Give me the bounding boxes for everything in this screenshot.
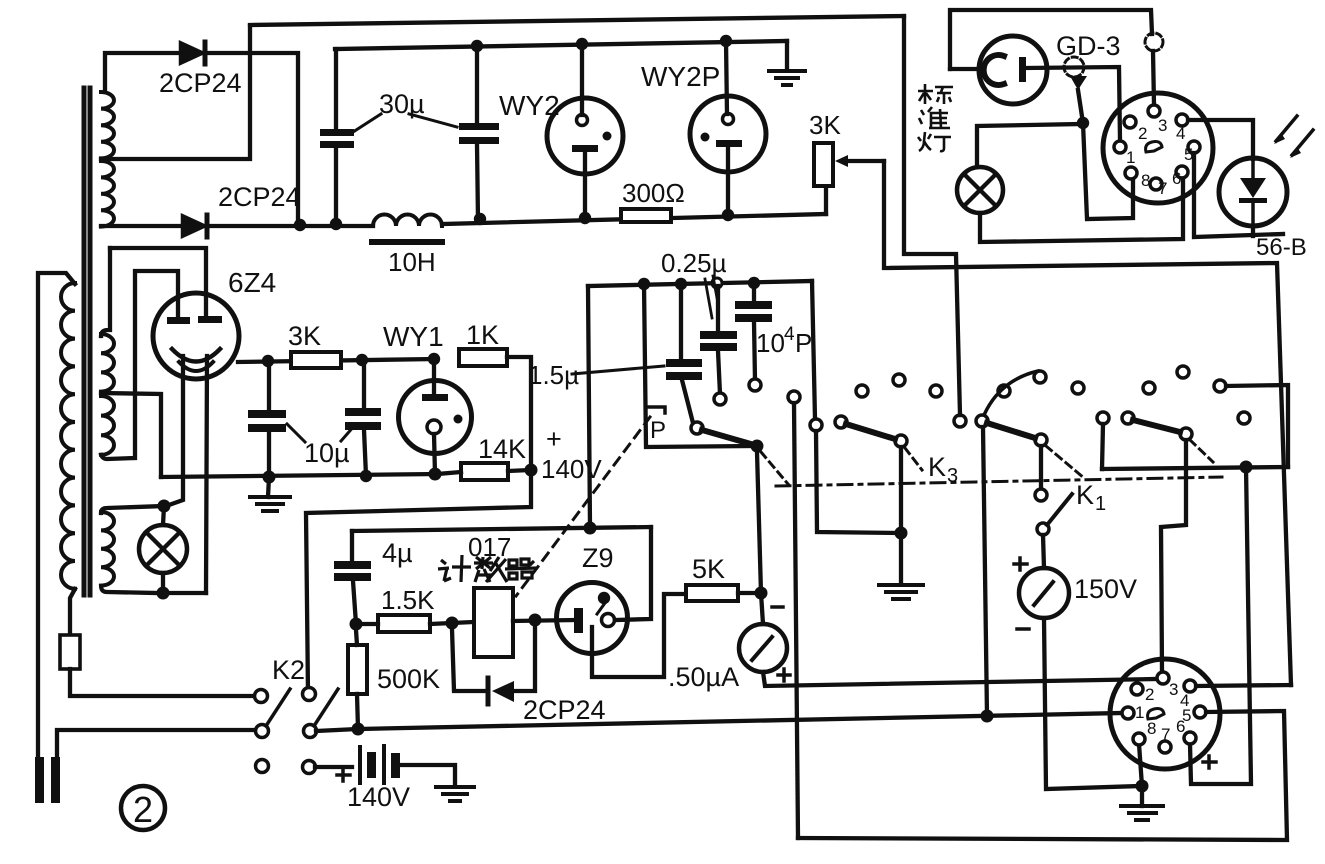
P terminal tab <box>646 407 665 413</box>
dashed socket circle top <box>1145 33 1163 51</box>
wire plug pin2 to K2 <box>57 730 255 759</box>
svg-text:140V: 140V <box>541 454 602 484</box>
svg-text:2CP24: 2CP24 <box>159 68 242 98</box>
svg-text:4: 4 <box>784 324 795 345</box>
battery plates <box>358 744 400 785</box>
node junction dot <box>294 219 306 231</box>
wire 5K right <box>738 591 759 595</box>
wire top supply rail <box>250 16 904 25</box>
wire GD-3 anode to pin1 <box>1026 67 1120 141</box>
wire 1K right <box>306 357 531 694</box>
capacitor C1 30u <box>320 129 354 148</box>
GD-3 anode bar <box>1019 57 1026 82</box>
wire top rail drop to stud S2-5 <box>904 16 960 415</box>
tube 6Z4 <box>153 293 239 379</box>
wire T1 center tap riser <box>101 26 250 159</box>
wire S4 wiper to socket2 top <box>1161 440 1186 672</box>
wire battery to ground <box>400 765 455 786</box>
K3 S1 wiper <box>751 440 764 453</box>
switch K3 section S3 studs <box>976 371 1109 427</box>
6Z4 right plate <box>198 316 222 323</box>
svg-text:2CP24: 2CP24 <box>523 695 606 725</box>
svg-text:30µ: 30µ <box>379 89 425 119</box>
wire Z9 cathode to 5K <box>592 594 686 677</box>
node junction dot <box>471 40 483 52</box>
svg-text:150V: 150V <box>1074 574 1137 604</box>
capacitor C6 10^4P stem <box>752 283 756 301</box>
tube WY2 top pin <box>577 115 588 126</box>
resistor R2 3K (pot) <box>814 143 833 186</box>
node junction dot <box>895 527 908 540</box>
wire socket2 pin5 to bottom border <box>798 711 1287 840</box>
wire dot to pin6 riser <box>1190 467 1251 784</box>
capacitor C2 30u <box>459 123 499 144</box>
winding W2c filament <box>101 512 114 586</box>
pointer line 30u right <box>409 114 457 127</box>
wire 500K top <box>356 630 357 645</box>
socket XS2 keyway <box>1148 709 1164 719</box>
svg-text:2: 2 <box>1145 685 1154 704</box>
svg-text:1K: 1K <box>466 320 499 350</box>
capacitor C8 4u <box>334 561 371 581</box>
node junction dot <box>428 353 440 365</box>
figure number 2 <box>121 786 165 830</box>
dashed lamp circle on anode wire <box>1064 57 1084 77</box>
tube WY2 stem <box>580 44 584 115</box>
wire rail to 3K <box>824 186 828 214</box>
phototube GD-3 <box>979 36 1047 104</box>
svg-text:5K: 5K <box>692 554 725 584</box>
switch K3 section S4 studs <box>1122 366 1250 424</box>
wire primary bottom to fuse <box>70 589 75 635</box>
wire stud S3-5 drop <box>1102 424 1103 469</box>
capacitor C3 10u stem <box>267 361 271 410</box>
wiper arrow of 3K <box>849 159 884 163</box>
pointer 1.5u <box>572 366 664 374</box>
resistor R6 1.5K <box>378 615 430 632</box>
wire S3 wiper to K1 <box>1039 446 1043 489</box>
svg-text:K: K <box>1076 480 1094 510</box>
svg-text:3: 3 <box>1169 680 1178 699</box>
wire WY2P bottom <box>726 147 730 215</box>
svg-text:4: 4 <box>1176 124 1185 143</box>
inductor L1 10H <box>373 215 442 227</box>
tube socket XS1 <box>1103 93 1213 203</box>
node junction dot <box>262 355 274 367</box>
wire node to lamp2 <box>163 506 164 525</box>
tube WY2P <box>690 96 766 172</box>
svg-text:7: 7 <box>1161 725 1170 744</box>
wire socket2 pin8 drop <box>1139 744 1142 786</box>
label plus (pin6) <box>1203 756 1216 768</box>
Z9 left electrode bar <box>574 608 583 633</box>
6Z4 filament leg B <box>206 356 207 593</box>
svg-text:0.25µ: 0.25µ <box>661 248 727 278</box>
tube WY1 cathode pin <box>427 420 441 434</box>
6Z4 filament leg A <box>166 356 183 506</box>
svg-text:6: 6 <box>1172 169 1181 188</box>
wire 500K bottom <box>357 694 358 729</box>
node junction dot <box>356 354 368 366</box>
resistor R4 1K <box>459 349 507 366</box>
diode D3 2CP24 bypass <box>452 629 486 691</box>
svg-text:Z9: Z9 <box>582 543 614 573</box>
wire C5 bottom to stud <box>718 351 720 394</box>
wire filtered rail <box>442 214 826 224</box>
wire K1 to voltmeter <box>1043 535 1044 568</box>
node junction dot <box>158 500 171 513</box>
capacitor C8 4u stem <box>350 531 354 561</box>
socket XS2 pin numbers <box>1135 680 1191 744</box>
wire rectified rail <box>207 224 373 228</box>
svg-text:140V: 140V <box>347 782 410 812</box>
svg-text:P: P <box>650 417 666 444</box>
capacitor C4 10u <box>345 408 381 430</box>
wire counter to Z9 <box>513 620 574 621</box>
pointer 10u left <box>287 424 305 442</box>
node junction dot <box>1136 780 1149 793</box>
fuse FU <box>60 635 80 669</box>
resistor R7 5K <box>686 585 738 601</box>
pointer 10u right <box>341 425 355 441</box>
node junction dot <box>675 278 687 290</box>
svg-text:2: 2 <box>133 789 153 830</box>
wire C1 bottom <box>334 148 338 222</box>
svg-text:GD-3: GD-3 <box>1056 31 1121 61</box>
wire stage bottom rail <box>161 474 437 477</box>
wire K2 to 500K rail <box>316 729 358 731</box>
linkage dash-dot line <box>776 477 1222 486</box>
wire upper rail 2 <box>335 41 787 49</box>
6Z4 left plate <box>167 317 190 324</box>
wire battery rail to socket2 pin1 <box>358 713 1122 729</box>
wire 56-B cathode stem <box>1251 226 1255 236</box>
wire C3 bottom <box>267 432 271 477</box>
svg-text:500K: 500K <box>377 664 440 694</box>
wire W2c top <box>101 506 164 513</box>
svg-text:300Ω: 300Ω <box>622 178 685 208</box>
tube WY1 <box>399 381 472 454</box>
wire C6 bottom to stud <box>754 322 755 380</box>
wire fuse to K2 <box>70 669 254 696</box>
pointer line 30u left <box>353 114 381 132</box>
wire stud S3-1 drop <box>983 427 987 716</box>
node junction dot <box>529 614 542 627</box>
label ji-shu-qi (counter) <box>438 555 537 582</box>
capacitor C3 10u <box>248 410 286 432</box>
resistor R3 3K <box>291 352 341 368</box>
svg-text:+: + <box>546 424 562 454</box>
capacitor C4 10u stem <box>362 360 366 408</box>
wire GD-3 left lead <box>950 67 979 71</box>
svg-text:8: 8 <box>1147 719 1156 738</box>
inductor L1 core bar <box>369 239 445 245</box>
capacitor C1 30u stem <box>334 49 338 129</box>
wire uA meter bottom to socket2 pin-top <box>763 672 1156 686</box>
wire P riser <box>644 284 751 447</box>
K3 S2 wiper <box>895 435 907 447</box>
wire W1b bottom to D2 <box>101 224 182 228</box>
tube WY2 cathode bar <box>572 145 598 152</box>
K3 S1 linkage dashes <box>761 452 788 484</box>
wire Z9 box top <box>352 527 651 531</box>
wire 1.5K right to counter <box>430 622 474 624</box>
node junction dot <box>748 277 760 289</box>
svg-text:1: 1 <box>1095 493 1106 515</box>
svg-text:2: 2 <box>1138 124 1147 143</box>
ground symbol (K3) <box>879 585 923 599</box>
tube WY2P stem <box>726 41 727 114</box>
svg-text:3K: 3K <box>809 110 841 140</box>
svg-text:10: 10 <box>756 328 785 358</box>
Z9 stroke <box>597 603 605 614</box>
capacitor C5 0.25u stem <box>716 286 720 332</box>
node junction dot <box>1077 117 1089 129</box>
svg-text:1.5K: 1.5K <box>381 585 435 615</box>
node junction dot <box>330 218 342 230</box>
node junction dot <box>579 212 591 224</box>
switch K1 <box>1035 489 1047 501</box>
wire cathode output rail <box>238 359 434 362</box>
svg-text:4µ: 4µ <box>382 538 413 568</box>
node junction dot <box>263 471 276 484</box>
meter uA50 <box>761 593 763 624</box>
node ring junction <box>712 278 722 288</box>
diode D1 2CP24 <box>180 42 204 64</box>
wire stud S4-4 strap <box>1226 385 1288 467</box>
K3 S4 wiper <box>1180 428 1192 440</box>
wire plug to primary top <box>38 273 75 759</box>
svg-text:WY2P: WY2P <box>641 61 720 92</box>
wire 1.5K left <box>356 622 378 626</box>
node junction dot <box>576 38 588 50</box>
wire W2a/W2b tap <box>101 393 161 477</box>
node junction dot <box>1240 461 1253 474</box>
label plus (150V) <box>1014 558 1027 570</box>
winding W2b secondary <box>101 396 114 455</box>
wire plate lead right <box>110 248 206 318</box>
svg-text:.50µA: .50µA <box>668 662 739 692</box>
node junction dot <box>981 710 994 723</box>
wire triangle to node <box>1078 90 1083 123</box>
counter 017 box <box>474 588 513 657</box>
switch K2 contacts <box>255 688 317 774</box>
node junction dot <box>157 587 170 600</box>
capacitor C7 1.5u <box>666 359 702 380</box>
transformer T2 primary winding <box>61 283 75 589</box>
wire lower cross rail <box>1102 467 1288 469</box>
node junction dot <box>474 213 486 225</box>
wire W2c bottom <box>101 586 157 593</box>
wire rail right riser to stud <box>812 281 815 419</box>
tube Z9 <box>557 583 628 654</box>
svg-text:14K: 14K <box>478 434 526 464</box>
56-B photodiode <box>1251 162 1255 179</box>
wire 3K wiper run <box>884 161 1291 685</box>
wire voltmeter to ground node <box>1044 618 1140 789</box>
dash linkage to counter <box>516 417 650 596</box>
wire C8 bottom <box>353 581 356 624</box>
switch K3 section S2 studs <box>835 374 966 428</box>
wire Z9 grid to box right <box>615 527 651 620</box>
power plug <box>35 757 44 803</box>
wire node to pin8 <box>1083 123 1133 219</box>
ground symbol (WY1 stage) <box>268 477 269 497</box>
svg-text:10µ: 10µ <box>304 438 350 468</box>
transformer T1 core <box>82 88 87 595</box>
wire to pin top <box>1153 51 1154 105</box>
switch K3 section S1 studs <box>691 379 822 434</box>
wire D1 to node <box>205 53 298 225</box>
diode D2 2CP24 <box>182 215 206 237</box>
label biao-zhun-deng (standard lamp) <box>918 84 953 151</box>
pilot lamp <box>139 525 187 573</box>
battery 140V <box>315 765 352 769</box>
ground symbol (top) <box>769 71 805 85</box>
capacitor C5 0.25u <box>700 331 737 351</box>
wire W2a top riser <box>101 248 110 336</box>
wire C4 bottom <box>364 430 366 476</box>
tube WY2P top pin <box>723 114 734 125</box>
node junction dot <box>360 470 372 482</box>
svg-text:1: 1 <box>1135 703 1144 722</box>
node junction dot <box>350 618 363 631</box>
arc strap S3 studs <box>984 371 1038 415</box>
meter 150V <box>1019 568 1069 618</box>
wire W2b bottom riser to left plate <box>101 271 178 459</box>
wire lamp2 bottom <box>163 573 206 593</box>
tube WY2P dot electrode <box>701 133 710 142</box>
node junction dot <box>720 35 732 47</box>
svg-text:10H: 10H <box>388 247 436 277</box>
wire rail2 to ground <box>785 41 789 70</box>
wire WY1 bottom <box>434 434 435 474</box>
capacitor C6 10^4P <box>735 301 772 322</box>
6Z4 cathode arc <box>172 349 220 362</box>
wire stud S1-5 drop to S2 wiper <box>816 431 899 533</box>
photocell 56-B <box>1219 158 1287 226</box>
node junction dot <box>429 468 442 481</box>
label minus (uA meter) <box>772 605 783 609</box>
tube WY1 dot <box>454 415 463 424</box>
ground symbol (socket2) <box>1140 786 1144 806</box>
K2 lever 1 <box>266 689 290 726</box>
socket XS1 pin numbers <box>1126 116 1193 198</box>
node junction dot <box>352 723 365 736</box>
capacitor C2 30u stem <box>475 46 479 123</box>
wire WY2 bottom <box>583 152 587 218</box>
svg-text:7: 7 <box>1158 179 1167 198</box>
tube WY2 anode dot <box>603 132 612 141</box>
resistor R300 300ohm <box>621 209 671 222</box>
svg-text:K: K <box>928 452 946 482</box>
lamp (standard lamp) <box>957 167 1003 213</box>
Z9 anode dot <box>598 592 610 604</box>
winding W1a <box>101 92 114 158</box>
capacitor C7 1.5u stem <box>679 284 683 359</box>
indicator triangle <box>1070 76 1087 90</box>
label minus (150V) <box>1017 627 1029 631</box>
svg-text:6: 6 <box>1176 717 1185 736</box>
K2 lever 2 <box>314 689 338 726</box>
node junction dot <box>584 522 597 535</box>
wire C7 bottom to stud <box>682 380 693 423</box>
node junction dot <box>722 209 734 221</box>
svg-text:2CP24: 2CP24 <box>218 182 301 212</box>
wire stud S1-4 drop (to socket2 pin5 loop) <box>794 403 798 838</box>
svg-text:6Z4: 6Z4 <box>228 267 276 298</box>
K3 S2 linkage dashes <box>905 448 922 470</box>
svg-text:1: 1 <box>1126 148 1135 167</box>
wire S2 wiper to ground <box>899 447 903 584</box>
wire socket2 pin4 lead <box>1196 685 1291 686</box>
svg-text:K2: K2 <box>272 655 305 685</box>
light arrows <box>1276 116 1297 141</box>
svg-text:56-B: 56-B <box>1256 234 1307 261</box>
label plus (battery) <box>337 769 350 781</box>
tube WY1 stem <box>432 359 436 395</box>
node junction dot <box>755 587 768 600</box>
node junction dot <box>446 617 459 630</box>
wire W1a top to D1 <box>105 53 180 92</box>
svg-text:P: P <box>795 328 812 358</box>
GD-3 cathode arc <box>984 55 1004 85</box>
tube socket XS2 <box>1110 659 1220 769</box>
wire pin4 to photocell <box>1188 120 1253 159</box>
resistor R5 14K <box>461 463 508 480</box>
wire node to lamp <box>977 124 1083 167</box>
ground symbol (battery) <box>436 787 474 801</box>
wire rail left riser <box>588 286 590 528</box>
wire S1 wiper drop to meter <box>757 452 761 593</box>
socket XS1 keyway <box>1146 142 1162 152</box>
pointer 0.25u <box>705 276 717 318</box>
wire C2 bottom <box>477 144 478 221</box>
wire cap rail <box>588 281 812 286</box>
resistor R8 500K <box>348 645 367 694</box>
svg-text:3: 3 <box>1158 116 1167 135</box>
wire 14K leads <box>437 470 531 474</box>
node junction dot <box>525 464 538 477</box>
K3 S3 wiper <box>1035 434 1047 446</box>
node junction dot <box>638 278 650 290</box>
wire pin5 to 56-B cathode <box>1194 153 1283 237</box>
svg-text:WY1: WY1 <box>383 321 444 352</box>
svg-text:8: 8 <box>1141 171 1150 190</box>
label plus (uA meter) <box>778 669 790 681</box>
tube WY1 anode bar <box>422 394 448 401</box>
K3 S3 linkage dashes <box>1046 446 1084 478</box>
winding W1b <box>101 161 114 227</box>
winding W2a secondary <box>101 334 114 392</box>
wire lamp bottom to pin6 <box>980 178 1183 242</box>
wire top box <box>950 10 1152 69</box>
K3 S4 linkage dashes <box>1190 440 1213 462</box>
tube WY2 <box>547 98 623 174</box>
Z9 grid ring <box>602 614 615 627</box>
svg-text:3K: 3K <box>288 321 321 351</box>
tube WY2P cathode bar <box>716 140 742 147</box>
